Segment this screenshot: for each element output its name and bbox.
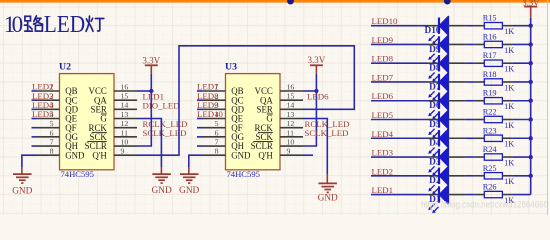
junction rail row 1	[529, 42, 533, 46]
wire U3 Q'H stub tail	[303, 154, 313, 156]
top sheet border bar	[0, 0, 550, 3]
svg-text:GND: GND	[12, 186, 32, 196]
junction rail row 3	[529, 80, 533, 84]
svg-text:6: 6	[215, 128, 219, 137]
svg-text:LED7: LED7	[372, 72, 394, 82]
U2 pin 6 stub	[37, 128, 60, 137]
svg-text:16: 16	[287, 82, 295, 91]
wire LED2 to diode	[371, 175, 428, 177]
svg-text:1K: 1K	[504, 121, 514, 130]
right window edge	[547, 0, 549, 215]
wire resistor to 3.3V rail	[512, 156, 530, 158]
svg-text:LED3: LED3	[372, 148, 394, 158]
U2 pin 2 stub	[37, 92, 60, 101]
wire LED10 to diode	[371, 25, 428, 27]
wire U2 left pin 5	[32, 127, 37, 129]
wire diode to resistor	[466, 81, 475, 83]
U2 pin names	[65, 86, 107, 160]
svg-text:14: 14	[287, 101, 295, 110]
svg-text:R18: R18	[483, 70, 497, 79]
svg-text:9: 9	[121, 147, 125, 156]
wire resistor to 3.3V rail	[512, 119, 530, 121]
svg-text:5: 5	[50, 119, 54, 128]
svg-text:Q'H: Q'H	[92, 150, 107, 160]
U3 pin 5 stub	[203, 119, 226, 128]
wire LED5 to diode	[371, 119, 428, 121]
resistor R22 1K	[475, 108, 514, 130]
wire resistor to 3.3V rail	[512, 43, 530, 45]
U2 overline SCLR	[87, 141, 107, 143]
svg-text:14: 14	[121, 101, 129, 110]
wire U2 left pin 2	[32, 99, 37, 101]
svg-text:11: 11	[121, 128, 129, 137]
junction rail row 7	[529, 155, 533, 159]
wire LED3 to diode	[371, 156, 428, 158]
junction rail row 6	[529, 136, 533, 140]
U2 overline SCK	[92, 131, 107, 133]
ground GND (U3 pin8)	[180, 174, 199, 183]
U2 overline G	[101, 113, 107, 115]
svg-text:1K: 1K	[504, 27, 514, 36]
svg-text:R26: R26	[483, 183, 497, 192]
ground GND (U2 G-bar)	[152, 174, 171, 183]
svg-text:LED6: LED6	[372, 91, 394, 101]
LED D4	[428, 129, 466, 157]
U3 overline SCLR	[253, 141, 272, 143]
svg-text:LED9: LED9	[372, 35, 394, 45]
svg-text:LED1: LED1	[372, 185, 394, 195]
svg-text:LED6: LED6	[307, 91, 329, 101]
svg-text:13: 13	[121, 110, 129, 119]
U2 pin 7 stub	[37, 137, 60, 146]
svg-text:Q'H: Q'H	[258, 150, 273, 160]
svg-text:3.3V: 3.3V	[522, 0, 540, 8]
U3 pin 7 stub	[203, 137, 226, 146]
wire U2 VCC to 3.3V and SCLR	[137, 90, 151, 92]
LED D2	[428, 167, 466, 195]
power 3.3V (U2)	[145, 64, 158, 66]
wire U2 left pin 3	[32, 108, 37, 110]
wire U2 left pin 4	[32, 118, 37, 120]
svg-text:1K: 1K	[504, 83, 514, 92]
wire U3 G-bar to ground	[303, 119, 328, 175]
U3 pin 8 stub	[203, 147, 226, 156]
U3 pin names	[231, 86, 273, 160]
wire U3 left pin 2	[197, 99, 203, 101]
U2 pin 14 stub	[114, 101, 137, 110]
svg-text:R17: R17	[483, 51, 497, 60]
wire resistor to 3.3V rail	[512, 175, 530, 177]
wire U3 left pin 6	[197, 136, 203, 138]
junction rail row 0	[529, 24, 533, 28]
op IC U3 74HC595 body	[225, 61, 280, 179]
wire U2 pin8 to ground	[22, 155, 37, 167]
U2 pin 10 stub	[114, 137, 137, 146]
svg-text:GND: GND	[152, 186, 172, 196]
U3 pin 4 stub	[203, 110, 226, 119]
ground GND (U3 G-bar)	[318, 183, 337, 192]
svg-text:R23: R23	[483, 126, 497, 135]
resistor R25 1K	[475, 164, 514, 186]
svg-text:LED10: LED10	[372, 16, 398, 26]
svg-text:11: 11	[287, 128, 295, 137]
svg-text:U3: U3	[225, 61, 237, 72]
LED D3	[428, 148, 466, 176]
LED D5	[428, 110, 466, 138]
svg-text:LED5: LED5	[32, 109, 54, 119]
svg-text:15: 15	[287, 92, 295, 101]
svg-text:15: 15	[121, 92, 129, 101]
U3 pin 9 stub	[280, 147, 303, 156]
U2 pin 8 stub	[37, 147, 60, 156]
U3 pin 1 stub	[203, 82, 226, 91]
wire LED9 to diode	[371, 43, 428, 45]
svg-text:LED4: LED4	[372, 129, 394, 139]
U2 pin 11 stub	[114, 128, 137, 137]
resistor R26 1K	[475, 183, 514, 205]
svg-text:LED2: LED2	[372, 166, 394, 176]
wire U3 left pin 7	[197, 145, 203, 147]
svg-text:8: 8	[215, 147, 219, 156]
junction dot on top border (left bus)	[287, 0, 294, 5]
resistor R18 1K	[475, 70, 514, 92]
svg-text:1K: 1K	[504, 102, 514, 111]
wire U3 pin8 to ground	[189, 155, 203, 167]
resistor R23 1K	[475, 126, 514, 148]
ground GND (U2 pin8)	[13, 174, 32, 183]
wire LED1 to diode	[371, 194, 428, 196]
svg-text:9: 9	[287, 147, 291, 156]
svg-text:3.3V: 3.3V	[308, 55, 326, 65]
junction U2 VCC node	[149, 89, 153, 93]
svg-text:LED5: LED5	[372, 110, 394, 120]
U3 pin 16 stub	[280, 82, 303, 91]
U2 pin 16 stub	[114, 82, 137, 91]
resistor R17 1K	[475, 51, 514, 73]
wire resistor to 3.3V rail	[512, 62, 530, 64]
wire LED4 to diode	[371, 137, 428, 139]
U2 pin 5 stub	[37, 119, 60, 128]
wire diode to resistor	[466, 43, 475, 45]
svg-text:74HC595: 74HC595	[227, 169, 260, 179]
svg-text:R24: R24	[483, 145, 498, 154]
svg-text:SCLK_LED: SCLK_LED	[143, 128, 187, 138]
U3 pin 13 stub	[280, 110, 303, 119]
svg-text:LED: LED	[44, 12, 85, 38]
svg-text:https://blog.csdn.net/cxw31286: https://blog.csdn.net/cxw312864660	[421, 200, 548, 211]
wire resistor to 3.3V rail	[512, 100, 530, 102]
resistor R15 1K	[475, 14, 514, 36]
wire diode to resistor	[466, 137, 475, 139]
LED D9	[428, 35, 466, 63]
svg-text:16: 16	[121, 82, 129, 91]
wire LED6 to diode	[371, 100, 428, 102]
svg-text:0: 0	[12, 12, 24, 37]
power 3.3V (rail)	[524, 6, 537, 8]
svg-text:8: 8	[50, 147, 54, 156]
wire U3 left pin 4	[197, 118, 203, 120]
junction rail row 4	[529, 99, 533, 103]
wire U2 left pin 6	[32, 136, 37, 138]
svg-text:1K: 1K	[504, 140, 514, 149]
LED D7	[428, 73, 466, 101]
LED D6	[428, 91, 466, 119]
wire resistor to 3.3V rail	[512, 137, 530, 139]
wire diode to resistor	[466, 119, 475, 121]
U2 pin 12 stub	[114, 119, 137, 128]
op IC U2 74HC595 body	[59, 61, 114, 179]
svg-text:R25: R25	[483, 164, 497, 173]
junction U3 VCC node	[314, 89, 318, 93]
svg-text:12: 12	[287, 119, 295, 128]
svg-text:6: 6	[50, 128, 54, 137]
junction rail row 8	[529, 174, 533, 178]
resistor R24 1K	[475, 145, 514, 167]
U2 pin 1 stub	[37, 82, 60, 91]
LED D1	[428, 185, 466, 213]
svg-text:5: 5	[215, 119, 219, 128]
U3 pin 12 stub	[280, 119, 303, 128]
wire U3 left pin 5	[197, 127, 203, 129]
U3 pin 2 stub	[203, 92, 226, 101]
wire diode to resistor	[466, 100, 475, 102]
svg-text:R19: R19	[483, 89, 497, 98]
svg-text:1K: 1K	[504, 65, 514, 74]
svg-text:3.3V: 3.3V	[142, 55, 160, 65]
svg-text:R16: R16	[483, 32, 497, 41]
wire diode to resistor	[466, 156, 475, 158]
title 10路LED灯	[4, 12, 104, 38]
svg-text:U2: U2	[59, 61, 71, 72]
svg-text:13: 13	[287, 110, 295, 119]
wire U2 left pin 7	[32, 145, 37, 147]
svg-text:GND: GND	[65, 150, 85, 160]
U3 overline SCK	[258, 131, 273, 133]
svg-text:GND: GND	[231, 150, 251, 160]
svg-text:10: 10	[287, 137, 295, 146]
wire diode to resistor	[466, 62, 475, 64]
junction dot on top border (right bus)	[444, 0, 451, 5]
wire resistor to 3.3V rail	[512, 81, 530, 83]
wire resistor to 3.3V rail	[512, 25, 530, 27]
U3 pin 15 stub	[280, 92, 303, 101]
U2 pin 4 stub	[37, 110, 60, 119]
wire resistor to 3.3V rail	[512, 194, 530, 196]
wire U2 Q'H to U3 SER	[137, 46, 354, 155]
U3 pin 14 stub	[280, 101, 303, 110]
svg-text:R15: R15	[483, 14, 497, 23]
U3 pin 6 stub	[203, 128, 226, 137]
wire diode to resistor	[466, 194, 475, 196]
svg-text:DIO_LED: DIO_LED	[143, 101, 180, 111]
svg-text:7: 7	[50, 137, 54, 146]
svg-text:GND: GND	[318, 194, 338, 204]
svg-text:10: 10	[121, 137, 129, 146]
svg-text:12: 12	[121, 119, 129, 128]
svg-text:LED10: LED10	[197, 109, 223, 119]
wire U2 left pin 1	[32, 90, 37, 92]
wire LED7 to diode	[371, 81, 428, 83]
svg-text:1K: 1K	[504, 158, 514, 167]
svg-text:7: 7	[215, 137, 219, 146]
svg-text:R22: R22	[483, 108, 497, 117]
U3 overline G	[267, 113, 273, 115]
U3 pin 10 stub	[280, 137, 303, 146]
wire diode to resistor	[466, 175, 475, 177]
power 3.3V (U3)	[310, 64, 323, 66]
U2 pin 9 stub	[114, 147, 137, 156]
wire U2 G-bar to ground	[137, 119, 161, 168]
svg-text:LED8: LED8	[372, 54, 394, 64]
U2 pin 3 stub	[37, 101, 60, 110]
U2 pin 15 stub	[114, 92, 137, 101]
svg-text:74HC595: 74HC595	[61, 169, 94, 179]
wire U3 left pin 1	[197, 90, 203, 92]
U3 pin 11 stub	[280, 128, 303, 137]
wire U3 VCC to 3.3V and SCLR	[303, 90, 317, 92]
LED D10	[424, 16, 465, 44]
junction rail row 2	[529, 61, 533, 65]
svg-text:1K: 1K	[504, 46, 514, 55]
resistor R16 1K	[475, 32, 514, 54]
3.3V rail vertical wire	[530, 18, 532, 195]
U3 pin 3 stub	[203, 101, 226, 110]
svg-text:GND: GND	[179, 186, 199, 196]
LED D8	[428, 54, 466, 82]
junction rail row 5	[529, 117, 533, 121]
svg-text:1K: 1K	[504, 177, 514, 186]
resistor R19 1K	[475, 89, 514, 111]
wire LED8 to diode	[371, 62, 428, 64]
U2 pin 13 stub	[114, 110, 137, 119]
wire diode to resistor	[466, 25, 475, 27]
wire U3 left pin 3	[197, 108, 203, 110]
